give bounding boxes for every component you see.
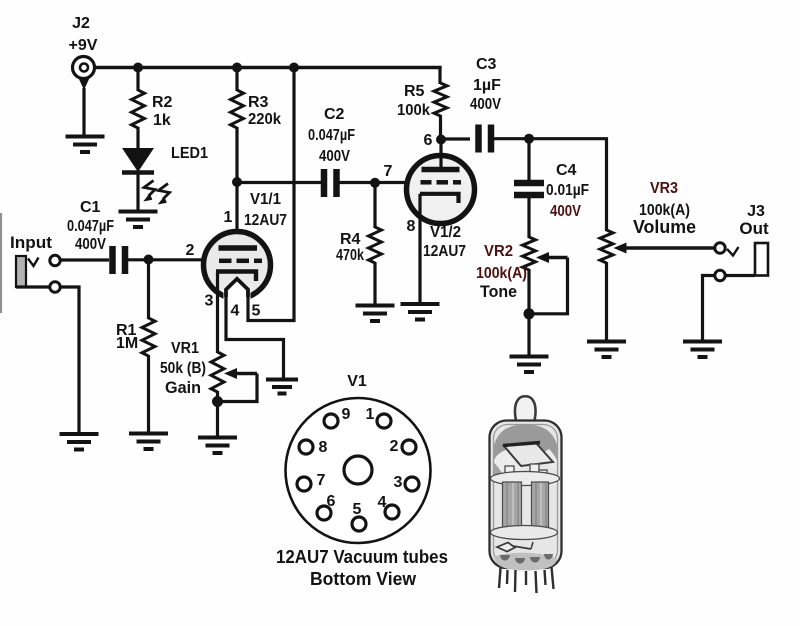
junction +9V at R3 (232, 63, 242, 73)
node plate V1/2 pin 6 (436, 135, 446, 145)
socket pin 3 label (394, 474, 403, 491)
capacitor C3 (479, 125, 492, 153)
label 470k (336, 247, 364, 264)
V1/1 grid dashes (219, 259, 262, 264)
svg-text:470k: 470k (336, 247, 364, 264)
wire R4 top (373, 183, 376, 228)
svg-text:7: 7 (384, 163, 393, 180)
input sleeve contact (50, 282, 60, 292)
label VR3 value (639, 202, 690, 219)
svg-text:400V: 400V (319, 148, 350, 165)
svg-text:3: 3 (205, 293, 214, 310)
junction C1 R1 (144, 255, 154, 265)
wire R3 top (235, 68, 238, 92)
VR2 wiper (536, 252, 568, 263)
socket pin 2 (402, 440, 416, 454)
wire plate node to C2 (237, 181, 321, 184)
socket pin 8 (299, 440, 313, 454)
label VR1 (171, 340, 199, 357)
label C4 (556, 162, 577, 179)
svg-text:C1: C1 (80, 199, 101, 216)
resistor R1 (142, 318, 155, 356)
svg-text:12AU7: 12AU7 (244, 212, 287, 229)
ground LED1 (119, 212, 158, 228)
label Gain (165, 378, 201, 397)
wire +9V to R5 (438, 66, 441, 84)
svg-text:Bottom View: Bottom View (310, 569, 417, 589)
socket pin 6 label (327, 493, 336, 510)
output sleeve contact (715, 270, 725, 280)
label R5 (404, 83, 425, 100)
wire VR1 bottom (216, 391, 219, 437)
svg-text:12AU7: 12AU7 (423, 243, 466, 260)
label 220k (248, 111, 281, 128)
svg-text:1k: 1k (153, 112, 171, 129)
label Out (739, 219, 769, 238)
svg-text:4: 4 (231, 303, 240, 320)
wire VR3 to ground (605, 262, 608, 342)
svg-text:1M: 1M (116, 335, 138, 352)
V1/1 cathode (216, 272, 256, 282)
potentiometer VR1 (211, 352, 224, 392)
svg-text:R4: R4 (340, 231, 361, 248)
svg-text:8: 8 (407, 218, 416, 235)
label C1 value (67, 218, 114, 235)
output tip contact (715, 243, 725, 253)
socket pin 9 (324, 414, 338, 428)
label 12AU7 second (423, 243, 466, 260)
triode V1/1 envelope (204, 232, 271, 299)
svg-text:6: 6 (424, 132, 433, 149)
svg-text:9: 9 (342, 406, 351, 423)
resistor R3 (231, 90, 244, 128)
label C1 (80, 199, 101, 216)
battery jack J2 (73, 57, 95, 91)
svg-text:2: 2 (186, 242, 195, 259)
svg-text:VR1: VR1 (171, 340, 199, 357)
socket pin 7 (297, 477, 311, 491)
label R1 (116, 322, 137, 339)
socket pin 7 label (317, 472, 326, 489)
triode V1/2 envelope (407, 156, 475, 224)
ground VR1 (198, 438, 237, 454)
label pin 7 (384, 163, 393, 180)
svg-text:J3: J3 (747, 203, 765, 220)
label J3 (747, 203, 765, 220)
wire R4 to ground (373, 262, 376, 306)
svg-text:400V: 400V (550, 203, 581, 220)
label Input (10, 233, 52, 252)
label V1/1 (250, 191, 281, 208)
label LED1 (171, 145, 208, 162)
svg-text:100k(A): 100k(A) (476, 265, 527, 282)
svg-text:V1/2: V1/2 (430, 224, 461, 241)
label pin 6 (424, 132, 433, 149)
svg-text:R3: R3 (248, 94, 269, 111)
svg-text:VR2: VR2 (484, 243, 513, 260)
label Bottom View (310, 569, 417, 589)
ground R1 (129, 434, 168, 450)
capacitor C4 (514, 183, 544, 195)
svg-text:3: 3 (394, 474, 403, 491)
LED LED1 (122, 148, 154, 173)
junction grid V1/2 R4 (370, 178, 380, 188)
label R2 (152, 94, 173, 111)
label R4 (340, 231, 361, 248)
12AU7 tube illustration (490, 396, 562, 593)
label 12AU7 Vacuum tubes (276, 547, 448, 567)
svg-text:0.01µF: 0.01µF (546, 182, 589, 199)
label 1M (116, 335, 138, 352)
label 1k (153, 112, 171, 129)
wire C2 to grid V1/2 (339, 181, 407, 184)
wire R2 top (136, 68, 139, 92)
wire R1 top (147, 260, 150, 320)
wire R3 to plate node (235, 127, 238, 184)
svg-text:5: 5 (252, 303, 261, 320)
label 50k (B) (160, 360, 206, 377)
LED1 light arrows (143, 181, 169, 205)
wire VR1 wiper loop (219, 374, 257, 402)
svg-text:8: 8 (319, 439, 328, 456)
junction VR2 bottom (524, 308, 535, 319)
output jack J3 plug (727, 243, 768, 276)
V1/2 plate (422, 167, 460, 173)
label C4 voltage (550, 203, 581, 220)
ground heater (266, 380, 298, 394)
label pin 3 (205, 293, 214, 310)
wire C4 to VR2 (527, 197, 530, 238)
svg-text:1µF: 1µF (473, 77, 501, 94)
resistor R2 (132, 90, 145, 128)
label C1 voltage (75, 236, 106, 253)
label Tone (480, 282, 517, 301)
capacitor C2 (324, 169, 337, 197)
wire output sleeve to plug (726, 274, 755, 277)
svg-text:100k: 100k (397, 102, 430, 119)
wire C1 to grid V1/1 (128, 258, 205, 261)
label VR3 (650, 180, 678, 197)
svg-text:Gain: Gain (165, 378, 201, 397)
label C3 value (473, 77, 501, 94)
svg-text:Out: Out (739, 219, 769, 238)
svg-text:1: 1 (366, 406, 375, 423)
V1/1 plate (219, 245, 258, 251)
wire C4 top (527, 139, 530, 181)
wire plate lead V1/1 (235, 182, 238, 246)
svg-text:4: 4 (378, 494, 387, 511)
junction C4 node (524, 134, 534, 144)
junction +9V at R2 (133, 63, 143, 73)
wire heater pin 5 to +9V (248, 68, 294, 321)
V1/2 grid dashes (421, 180, 462, 185)
svg-text:1: 1 (224, 209, 233, 226)
VR1 wiper (224, 368, 257, 379)
label C3 voltage (470, 96, 501, 113)
wire R1 to ground (147, 355, 150, 433)
socket pin 5 label (353, 501, 362, 518)
socket center key (344, 456, 372, 484)
socket pin 2 label (390, 438, 399, 455)
svg-text:Volume: Volume (633, 217, 696, 237)
node plate V1/1 (232, 177, 242, 187)
junction VR1 bottom (212, 396, 223, 407)
capacitor C1 (113, 246, 126, 274)
junction +9V at heater wire (289, 63, 299, 73)
wire pin6 to C3 (441, 137, 470, 140)
label pin 2 (186, 242, 195, 259)
svg-text:J2: J2 (72, 15, 90, 32)
svg-text:220k: 220k (248, 111, 281, 128)
V1/2 cathode (420, 194, 459, 203)
svg-text:12AU7 Vacuum tubes: 12AU7 Vacuum tubes (276, 547, 448, 567)
label Volume (633, 217, 696, 237)
svg-text:7: 7 (317, 472, 326, 489)
svg-text:C4: C4 (556, 162, 577, 179)
input jack J1 plug (16, 256, 39, 287)
wire input sleeve to ground (61, 287, 79, 434)
wire heater pin 4 to ground (226, 295, 284, 379)
ground input (60, 434, 99, 450)
svg-text:0.047µF: 0.047µF (308, 127, 355, 144)
resistor R4 (369, 227, 382, 263)
wire VR2 wiper loop (531, 258, 568, 314)
wire VR2 bottom (527, 269, 530, 356)
socket pin 1 (377, 414, 391, 428)
wire R5 to plate node (439, 115, 442, 141)
label pin 8 (407, 218, 416, 235)
label pin 5 (252, 303, 261, 320)
svg-text:50k (B): 50k (B) (160, 360, 206, 377)
wire input sleeve to plug (16, 285, 49, 288)
ground J3 (683, 342, 722, 358)
wire cathode V1/1 to VR1 (216, 272, 219, 354)
label pin 4 (231, 303, 240, 320)
label V1/2 (430, 224, 461, 241)
socket pin 3 (405, 477, 419, 491)
wire J2 to ground (82, 88, 85, 137)
svg-text:Input: Input (10, 233, 52, 252)
svg-text:C3: C3 (476, 56, 497, 73)
label C2 value (308, 127, 355, 144)
tube socket outline (286, 398, 431, 543)
label C4 value (546, 182, 589, 199)
svg-text:Tone: Tone (480, 282, 517, 301)
label 12AU7 first (244, 212, 287, 229)
socket pin 4 label (378, 494, 387, 511)
socket pin 5 (352, 517, 366, 531)
wire cathode V1/2 to ground (418, 194, 421, 304)
ground VR3 (587, 342, 626, 358)
svg-text:+9V: +9V (69, 37, 98, 54)
input tip contact (50, 255, 60, 265)
label V1 socket (347, 373, 367, 390)
label pin 1 (224, 209, 233, 226)
svg-text:V1: V1 (347, 373, 367, 390)
label VR2 value (476, 265, 527, 282)
scan edge artifact (0, 213, 2, 313)
svg-text:5: 5 (353, 501, 362, 518)
resistor R5 (434, 83, 447, 116)
svg-text:V1/1: V1/1 (250, 191, 281, 208)
svg-text:400V: 400V (75, 236, 106, 253)
V1/2 plate lead (439, 140, 442, 171)
label C3 (476, 56, 497, 73)
ground J2 (66, 137, 105, 153)
ground R4 (356, 306, 395, 322)
svg-text:400V: 400V (470, 96, 501, 113)
V1/1 heater (224, 276, 251, 304)
label J2 (72, 15, 90, 32)
VR3 wiper to J3 tip (614, 243, 715, 254)
svg-text:0.047µF: 0.047µF (67, 218, 114, 235)
potentiometer VR2 (523, 237, 536, 270)
svg-text:6: 6 (327, 493, 336, 510)
label C2 voltage (319, 148, 350, 165)
socket pin 9 label (342, 406, 351, 423)
label C2 (324, 106, 345, 123)
svg-text:2: 2 (390, 438, 399, 455)
wire output sleeve to ground (703, 276, 715, 343)
svg-text:VR3: VR3 (650, 180, 678, 197)
wire R2 to LED1 (136, 127, 139, 149)
wire C3 to VR3 (494, 139, 607, 231)
wire +9V rail (94, 66, 442, 69)
socket pin 4 (385, 505, 399, 519)
socket pin 6 (317, 506, 331, 520)
wire input tip to C1 (61, 258, 109, 261)
label R3 (248, 94, 269, 111)
label 100k (397, 102, 430, 119)
socket pin 8 label (319, 439, 328, 456)
svg-text:LED1: LED1 (171, 145, 208, 162)
ground V1/2 cathode (401, 304, 440, 320)
svg-text:R2: R2 (152, 94, 173, 111)
svg-text:R5: R5 (404, 83, 425, 100)
ground VR2 (510, 357, 549, 373)
socket pin 1 label (366, 406, 375, 423)
wire LED1 to ground (136, 171, 139, 212)
potentiometer VR3 (600, 230, 613, 263)
svg-text:C2: C2 (324, 106, 345, 123)
label VR2 (484, 243, 513, 260)
label +9V (69, 37, 98, 54)
